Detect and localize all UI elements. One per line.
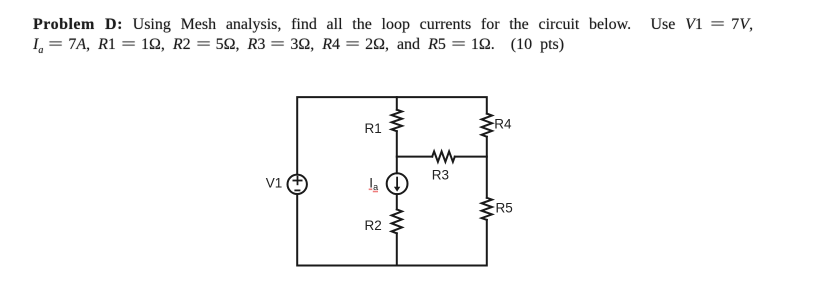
svg-text:R3: R3 (432, 167, 449, 182)
svg-text:R2: R2 (365, 218, 382, 233)
svg-text:R5: R5 (496, 201, 513, 216)
svg-text:R1: R1 (365, 121, 382, 136)
svg-text:V1: V1 (266, 175, 283, 190)
svg-text:R4: R4 (494, 116, 512, 131)
